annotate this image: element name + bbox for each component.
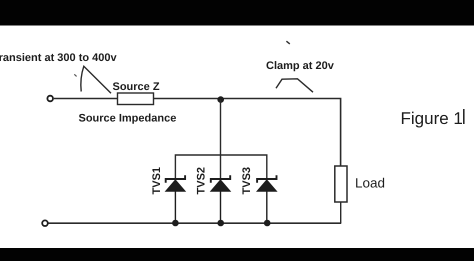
wire from top junction down to TVS2 xyxy=(220,100,222,180)
svg-text:Source Impedance: Source Impedance xyxy=(79,113,177,125)
TVS1 diode xyxy=(166,175,185,223)
node junction bottom TVS3 xyxy=(264,220,271,227)
stray tick mark left of spike xyxy=(74,74,76,76)
stray tick mark above clamp label xyxy=(286,41,289,44)
svg-text:TVS3: TVS3 xyxy=(241,167,253,195)
text cursor bar xyxy=(463,109,465,124)
svg-text:Clamp at 20v: Clamp at 20v xyxy=(266,60,335,72)
resistor box Source Z xyxy=(118,93,154,105)
svg-text:TVS1: TVS1 xyxy=(151,167,163,195)
TVS3 diode xyxy=(257,175,276,223)
wire top rail xyxy=(54,99,341,167)
node junction bottom TVS1 xyxy=(172,220,179,227)
wire TVS bus xyxy=(175,155,266,179)
node junction on top rail xyxy=(217,96,224,103)
svg-text:TVS2: TVS2 xyxy=(196,167,208,195)
terminal T2 bottom input (open circle) xyxy=(42,220,48,226)
TVS2 diode xyxy=(211,175,230,223)
wire bottom rail xyxy=(49,222,342,224)
load resistor box xyxy=(335,166,347,202)
clamp waveform symbol xyxy=(276,79,313,92)
svg-text:Figure 1: Figure 1 xyxy=(401,109,463,128)
svg-text:Load: Load xyxy=(355,176,385,191)
transient spike symbol xyxy=(81,66,111,93)
letterbox band bottom xyxy=(0,248,474,261)
letterbox band top xyxy=(0,0,474,26)
wire from load to bottom rail xyxy=(340,202,342,223)
svg-text:Source Z: Source Z xyxy=(113,81,160,93)
terminal T1 top input (open circle) xyxy=(47,96,53,102)
node junction bottom TVS2 xyxy=(217,220,224,227)
svg-text:Transient at 300 to 400v: Transient at 300 to 400v xyxy=(0,52,117,64)
